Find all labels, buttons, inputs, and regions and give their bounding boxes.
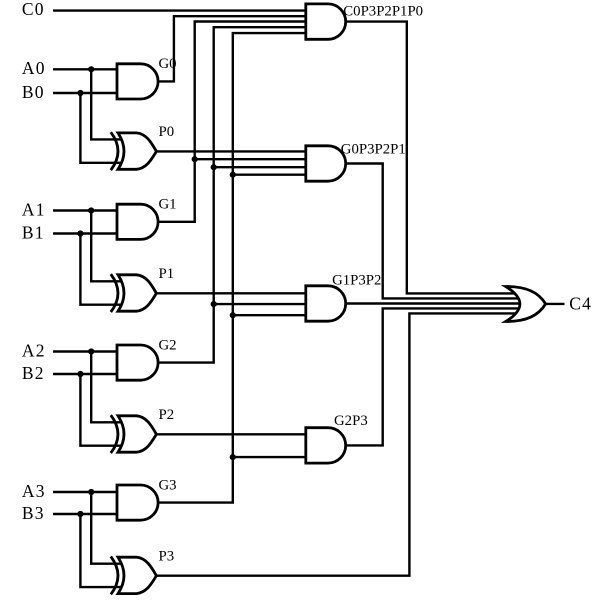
- wire P1 output to AND U7 input 1: [155, 292, 307, 294]
- wire G2 output riser to AND U5 input 4: [158, 27, 308, 362]
- node B3 junction: [77, 511, 83, 517]
- wire G0 output riser to AND U5 input 2: [158, 16, 308, 81]
- wire B0 tap to XOR: [80, 93, 123, 163]
- wire U5 output to OR U9 input 1: [346, 22, 516, 294]
- node B2 junction: [77, 371, 83, 377]
- wire B3 input row: [53, 513, 119, 515]
- wire B3 tap to XOR: [80, 514, 123, 587]
- node A3 junction: [88, 489, 94, 495]
- wire U8 output to OR U9 input 4: [346, 308, 520, 445]
- wire G3 branch to AND U6 input 4: [233, 173, 308, 175]
- wire B0 input row: [53, 92, 119, 94]
- AND gate U5 (C0P3P2P1P0): [306, 4, 346, 39]
- wire B1 tap to XOR: [80, 234, 123, 305]
- node G2 junction at U7.2: [211, 301, 217, 307]
- wire G1 output riser to AND U5 input 3: [158, 22, 308, 222]
- node A2 junction: [88, 348, 94, 354]
- svg-text:G1: G1: [159, 197, 177, 213]
- svg-text:P1: P1: [159, 266, 175, 282]
- node A1 junction: [88, 207, 94, 213]
- svg-text:G2P3: G2P3: [334, 413, 368, 429]
- wire A1 tap to XOR: [91, 211, 123, 282]
- AND gate U6 (G0P3P2P1): [306, 146, 346, 181]
- wire P0 output to AND U6 input 1: [155, 150, 307, 152]
- svg-text:C4: C4: [569, 294, 592, 314]
- XOR gate P0: [118, 133, 156, 169]
- svg-text:G3: G3: [159, 477, 177, 493]
- wire B2 input row: [53, 373, 119, 375]
- wire G3 branch to AND U7 input 3: [233, 314, 308, 316]
- svg-text:G0: G0: [159, 56, 177, 72]
- svg-text:G0P3P2P1: G0P3P2P1: [341, 141, 406, 157]
- svg-text:P0: P0: [159, 124, 175, 140]
- svg-text:P3: P3: [159, 549, 175, 565]
- wire B1 input row: [53, 232, 119, 234]
- AND gate G1: [117, 204, 158, 239]
- wire A0 input row: [53, 68, 119, 70]
- node G2 junction at U6.3: [211, 164, 217, 170]
- wire A1 input row: [53, 209, 119, 211]
- svg-text:P2: P2: [159, 407, 175, 423]
- svg-text:B3: B3: [22, 503, 45, 523]
- svg-text:G1P3P2: G1P3P2: [332, 273, 381, 289]
- node B1 junction: [77, 230, 83, 236]
- svg-text:A2: A2: [22, 340, 46, 360]
- XOR gate P1: [118, 275, 156, 311]
- wire A0 tap to XOR: [91, 69, 123, 139]
- wire C0 input to AND U5 input 1: [53, 9, 308, 11]
- wire U7 output to OR U9 input 3: [346, 302, 521, 304]
- AND gate G2: [117, 345, 158, 380]
- OR gate U9 (C4): [506, 287, 546, 322]
- node G3 junction at U7.3: [230, 312, 236, 318]
- node G3 junction at U8.2: [230, 454, 236, 460]
- svg-text:C0P3P2P1P0: C0P3P2P1P0: [343, 4, 423, 20]
- wire G3 output riser to AND U5 input 5: [158, 33, 308, 503]
- node B0 junction: [77, 90, 83, 96]
- AND gate G0: [117, 64, 158, 99]
- wire G2 branch to AND U7 input 2: [214, 303, 308, 305]
- wire G3 branch to AND U8 input 2: [233, 456, 308, 458]
- svg-text:B1: B1: [22, 222, 45, 242]
- XOR gate P3: [118, 557, 156, 593]
- wire G1 branch to AND U6 input 2: [195, 158, 308, 160]
- svg-text:C0: C0: [22, 0, 45, 19]
- svg-text:A3: A3: [22, 481, 46, 501]
- node G3 junction at U6.4: [230, 172, 236, 178]
- svg-text:B2: B2: [22, 363, 45, 383]
- AND gate G3: [117, 485, 158, 520]
- wire G2 branch to AND U6 input 3: [214, 166, 308, 168]
- wire P3 output riser to OR U9 input 5: [155, 313, 516, 575]
- node A0 junction: [88, 66, 94, 72]
- svg-text:A0: A0: [22, 58, 46, 78]
- wire A3 input row: [53, 491, 119, 493]
- node G1 junction at U6.2: [192, 156, 198, 162]
- wire A2 tap to XOR: [91, 352, 123, 423]
- wire U6 output to OR U9 input 2: [346, 164, 520, 299]
- svg-text:G2: G2: [159, 337, 177, 353]
- AND gate U7 (G1P3P2): [306, 286, 346, 321]
- wire A2 input row: [53, 350, 119, 352]
- wire P2 output to AND U8 input 1: [155, 433, 307, 435]
- XOR gate P2: [118, 416, 156, 452]
- svg-text:B0: B0: [22, 82, 45, 102]
- wire A3 tap to XOR: [91, 492, 123, 564]
- wire B2 tap to XOR: [80, 374, 123, 446]
- wire C4 output: [546, 303, 565, 305]
- AND gate U8 (G2P3): [306, 428, 346, 463]
- svg-text:A1: A1: [22, 199, 46, 219]
